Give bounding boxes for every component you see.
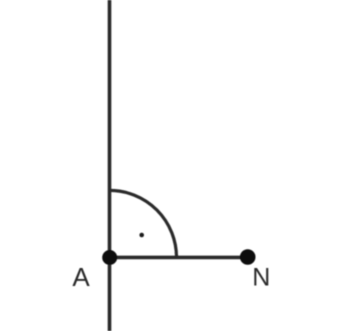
svg-text:N: N — [252, 264, 270, 292]
svg-text:A: A — [72, 262, 90, 292]
right-angle dot marker — [139, 233, 144, 238]
wire: vertical line through A — [108, 0, 112, 331]
wire: horizontal segment A-N — [110, 256, 248, 260]
node N (point) — [240, 249, 256, 265]
right-angle arc at A — [110, 190, 177, 257]
node A (point) — [102, 250, 117, 265]
